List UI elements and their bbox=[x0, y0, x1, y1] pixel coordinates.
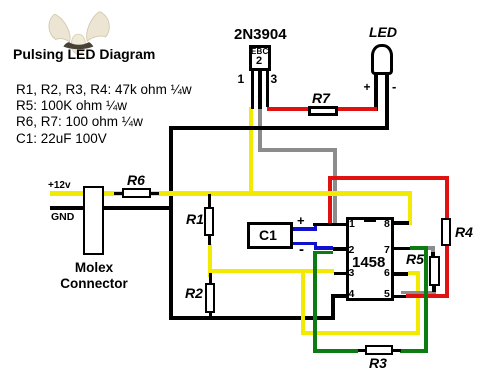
op-amp U1 pin 1 stub bbox=[313, 223, 346, 227]
op-amp U1 1458 body bbox=[346, 217, 395, 301]
wire: +12v yellow rail bbox=[50, 191, 412, 196]
wire: LED right leg bbox=[385, 73, 389, 130]
pin 4 bbox=[349, 288, 355, 300]
wire: yellow junction to IC pin3 bbox=[208, 269, 335, 273]
wire: green pin7 jog bbox=[410, 246, 428, 250]
transistor Q1 leg pin 2 bbox=[258, 70, 262, 109]
wire: red R7 to LED + bbox=[337, 107, 377, 111]
transistor pin label 3 bbox=[271, 72, 278, 86]
op-amp U1 pin 5 stub bbox=[394, 295, 406, 299]
C1 - label bbox=[299, 241, 304, 258]
op-amp U1 pin 3 stub bbox=[334, 272, 346, 276]
wire: yellow bottom horizontal bbox=[301, 331, 420, 336]
dove logo bbox=[33, 0, 119, 60]
resistor R5 top lead bbox=[431, 252, 435, 257]
wire: red vertical from IC pin1 up bbox=[328, 176, 332, 226]
resistor R5 bbox=[429, 256, 440, 286]
wire: gray pin7 jog to R5 bbox=[426, 246, 435, 250]
op-amp U1 pin 6 stub bbox=[394, 272, 408, 276]
op-amp U1 pin 8 stub bbox=[394, 221, 409, 225]
pin 3 bbox=[349, 267, 355, 279]
wire: yellow R1-R2 junction vertical bbox=[208, 244, 212, 277]
resistor R2 top lead bbox=[209, 273, 213, 284]
wire: yellow vertical up to pin6 bbox=[416, 271, 421, 335]
wire: green vertical down to R3 bbox=[313, 251, 317, 353]
C1 + label bbox=[297, 213, 305, 228]
LED + label bbox=[364, 80, 371, 94]
wire: black from IC pin4 down to bottom rail bbox=[331, 294, 335, 320]
Molex connector box bbox=[83, 186, 104, 255]
GND label bbox=[51, 211, 74, 223]
+12v label bbox=[48, 180, 71, 191]
op-amp U1 pin 4 stub bbox=[331, 294, 348, 298]
wire: yellow vertical branch down bbox=[301, 270, 305, 335]
op-amp U1 pin 2 stub bbox=[333, 247, 346, 251]
LED bulb bbox=[371, 44, 393, 75]
wire: yellow pin6 jog bbox=[408, 271, 418, 275]
wire: black LED return vertical (left black bus) bbox=[169, 126, 173, 320]
wire: gray vertical down to IC pin1 bbox=[333, 148, 337, 226]
wire: gray horizontal from transistor pin2 path bbox=[258, 148, 337, 152]
wire: red to IC pin5 bbox=[406, 294, 449, 298]
wire: black LED return horizontal bbox=[169, 126, 390, 130]
resistor R3 right lead bbox=[393, 349, 401, 353]
pin 7 bbox=[384, 244, 390, 256]
pin 2 bbox=[349, 244, 355, 256]
wire: green bottom left to R3 bbox=[313, 349, 358, 353]
transistor 2N3904 body bbox=[249, 45, 272, 71]
wire: black GND right segment bbox=[104, 206, 172, 210]
wire: gray R5 bottom to pin5 bbox=[401, 291, 436, 295]
transistor pin label 1 bbox=[238, 72, 245, 86]
wire: red vertical down to R4 top bbox=[445, 176, 449, 218]
resistor R1 bottom lead bbox=[208, 235, 212, 245]
wire: yellow down to IC pin8 bbox=[408, 191, 413, 225]
Molex label bbox=[60, 260, 128, 291]
pin 5 bbox=[384, 288, 390, 300]
resistor R4 bbox=[441, 218, 451, 246]
IC notch bbox=[364, 217, 376, 223]
wire: green vertical up to pin7 bbox=[424, 246, 428, 353]
LED - label bbox=[392, 79, 396, 94]
label LED bbox=[369, 24, 397, 40]
op-amp U1 pin 7 stub bbox=[394, 247, 411, 251]
resistor R1 top lead bbox=[208, 194, 212, 207]
resistor R1 bbox=[204, 207, 215, 236]
resistor R6 bbox=[122, 188, 151, 198]
pin 1 bbox=[349, 218, 355, 230]
wire: green pin2 horizontal bbox=[315, 251, 333, 255]
wire: red below R4 down bbox=[445, 246, 449, 298]
resistor R6 right lead bbox=[151, 192, 159, 196]
resistor R6 left lead bbox=[114, 192, 122, 196]
transistor Q1 leg pin 3 bbox=[266, 70, 270, 107]
title: Pulsing LED Diagram bbox=[13, 46, 155, 62]
wire: blue C1 plus to IC pin1 bbox=[292, 227, 317, 231]
capacitor C1 bbox=[247, 222, 293, 249]
resistor R3 left lead bbox=[358, 349, 366, 353]
resistor R5 bottom lead bbox=[432, 286, 436, 292]
resistor R7 bbox=[308, 106, 338, 116]
resistor R2 bbox=[205, 283, 215, 313]
pin 6 bbox=[384, 267, 390, 279]
wire: red transistor pin3 to R7 bbox=[267, 107, 308, 111]
1458 label bbox=[352, 254, 385, 271]
wire: green R3 to right vertical bbox=[400, 349, 428, 353]
transistor Q1 leg pin 1 bbox=[251, 70, 255, 109]
wire: black bottom rail bbox=[169, 316, 335, 320]
wire: gray from transistor pin2 down bbox=[258, 107, 262, 152]
wire: black GND left segment bbox=[50, 206, 84, 210]
label 2N3904 bbox=[234, 26, 287, 43]
pin 8 bbox=[384, 218, 390, 230]
resistor R3 bbox=[365, 345, 393, 356]
wire: blue C1 minus to IC pin2 bbox=[292, 242, 317, 246]
wire: LED left leg bbox=[374, 73, 378, 111]
wire: yellow from transistor pin1 down to +12v rail bbox=[249, 107, 253, 195]
parts list bbox=[16, 82, 192, 147]
wire: red horizontal to R4 bbox=[328, 176, 449, 180]
resistor R2 bottom lead bbox=[209, 312, 213, 318]
